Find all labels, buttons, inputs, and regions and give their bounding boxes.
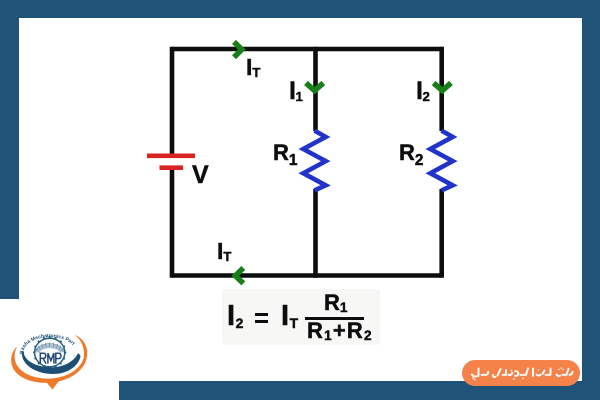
wire: right branch upper (to R2): [439, 47, 444, 131]
wire: bottom return: [172, 273, 442, 278]
wire: left upper (battery + lead): [170, 47, 175, 154]
label R1: [273, 142, 297, 164]
word "مکاترونیک": [493, 368, 528, 377]
company name text (Persian: شرکت راشا مکاترونیک پارت, drawn as vector strokes): [467, 362, 575, 384]
fraction denominator R1+R2: [307, 320, 373, 342]
frame right bar: [582, 0, 600, 400]
current arrow I2 (points down): [434, 83, 451, 91]
frame bottom bar: [119, 381, 600, 400]
current arrow IT top (points right): [234, 42, 242, 57]
fraction numerator R1: [324, 292, 347, 314]
wire: right branch lower (from R2): [439, 189, 444, 278]
current arrow IT bottom (points left): [235, 268, 243, 283]
label V (battery): [192, 163, 209, 188]
wire: left lower (battery - lead): [170, 170, 175, 278]
logo orange swoosh ring: [11, 335, 87, 383]
resistor R1 zigzag: [303, 131, 325, 191]
wire: middle branch lower (from R1): [313, 189, 318, 278]
battery V negative plate: [160, 165, 184, 170]
logo arch ornament: [35, 344, 64, 353]
logo blue crescent: [22, 352, 81, 375]
current arrow I1 (points down): [306, 83, 323, 91]
logo orange swoosh tail: [43, 377, 62, 390]
word "راشا": [533, 368, 551, 376]
battery V positive plate: [147, 154, 195, 159]
formula highlight box: [222, 289, 380, 345]
company pill (orange): [462, 360, 580, 386]
logo gear ring: [35, 338, 65, 367]
resistor R2 zigzag: [430, 131, 452, 191]
word "پارت": [472, 368, 488, 376]
logo gear teeth: [33, 336, 66, 369]
fraction bar: [305, 317, 364, 320]
label I1: [289, 79, 303, 104]
word "شرکت": [557, 368, 573, 375]
label IT (top wire): [246, 56, 260, 79]
label IT (bottom wire): [217, 240, 231, 263]
label I2: [416, 79, 430, 104]
formula I2 = IT * R1/(R1+R2): [227, 302, 243, 331]
company logo RMP: [10, 333, 92, 394]
frame left bar: [0, 0, 19, 299]
label R2: [399, 142, 423, 164]
logo RMP monogram: [40, 353, 61, 363]
wire: top (battery+ to branches): [172, 47, 442, 52]
frame top bar: [0, 0, 600, 18]
wire: middle branch upper (to R1): [313, 47, 318, 131]
